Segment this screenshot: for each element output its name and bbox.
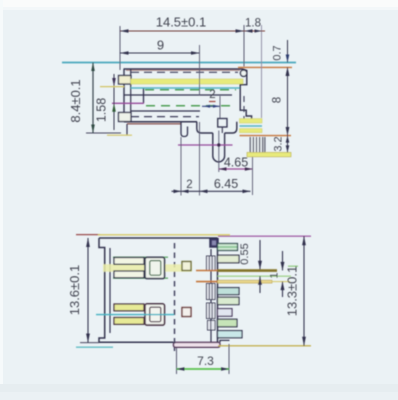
7.3 ext line left — [176, 348, 178, 374]
lower contact bottom prong — [114, 318, 144, 325]
upper contact bottom prong — [114, 271, 144, 278]
svg-text:1.8: 1.8 — [245, 18, 261, 30]
shell inner left wall — [109, 248, 111, 333]
8.4 bottom extension line — [86, 132, 121, 134]
ext line x=199.5 lower — [199, 122, 201, 196]
left wall inner — [130, 70, 132, 122]
lower contact neck — [144, 308, 152, 321]
dim 2 (bottom, outside arrows) — [172, 190, 200, 192]
pin 4 — [218, 297, 240, 304]
navy vertical contact bend — [143, 89, 145, 104]
small square latch — [218, 119, 227, 128]
dim 7.3 (green) — [177, 368, 230, 370]
left wall outer — [123, 69, 125, 122]
right leg yellow band lower — [240, 129, 263, 133]
U slot — [213, 133, 225, 162]
U centre axis — [218, 131, 220, 173]
dim 6.45 — [200, 190, 251, 192]
upper contact block — [145, 257, 165, 278]
ribbed block C — [207, 303, 216, 319]
green dashed row 2 — [146, 105, 236, 107]
pin 2 — [218, 255, 240, 263]
ext line right x=252.5 — [252, 157, 254, 195]
circle feature (top right) — [240, 70, 246, 76]
dim 2 arrows — [202, 105, 220, 107]
orange feed lower — [196, 281, 218, 283]
green dashed row 1 — [145, 89, 236, 91]
mounting foot (left leg) — [181, 122, 188, 137]
svg-text:1: 1 — [269, 272, 281, 278]
through-hole legs (ribbed) — [250, 137, 264, 152]
dim 8.4±0.1 vertical — [92, 63, 94, 134]
pin 5 — [218, 309, 233, 317]
yellow pcb-hole ext line (left) — [107, 134, 132, 136]
yellow ext of pin — [272, 281, 290, 283]
hidden dashed vertical (right) — [243, 96, 245, 122]
svg-text:7.3: 7.3 — [197, 354, 214, 368]
right side outline upper — [240, 69, 251, 122]
yellow top extension line — [76, 234, 100, 236]
pin 1 — [218, 244, 238, 251]
dim 3.2 vertical — [287, 136, 289, 153]
svg-text:0.55: 0.55 — [239, 243, 251, 264]
left top tab — [119, 76, 132, 85]
latch stem — [221, 127, 223, 133]
yellow bottom extension line — [218, 345, 311, 347]
cyan line through lower contact — [96, 314, 174, 316]
body top edge — [99, 237, 218, 239]
bottom wall top edge — [131, 110, 200, 112]
hidden dashed line (top inner) — [131, 71, 238, 73]
pcb surface line (cyan) — [62, 62, 296, 64]
svg-text:9: 9 — [157, 38, 164, 53]
svg-text:4.65: 4.65 — [224, 156, 248, 170]
ext line x=199.5 upper — [199, 45, 201, 95]
dim 1.58 vertical — [113, 74, 115, 130]
right wall outer line — [217, 238, 219, 342]
centre dot — [217, 143, 220, 146]
svg-text:3.2: 3.2 — [273, 136, 285, 151]
ext line left (14.5 / 9) — [119, 26, 121, 70]
green tick right — [288, 265, 298, 267]
upper square hole — [182, 262, 191, 271]
upper block inner edge — [150, 261, 161, 276]
red tick under 2 — [209, 101, 216, 103]
pin 6 — [218, 319, 238, 327]
lower square hole — [182, 308, 191, 317]
lower contact block — [145, 304, 165, 325]
center protrusion left shoulder — [197, 122, 213, 133]
right leg cyan line — [240, 125, 263, 127]
dim 13.3±0.1 — [303, 236, 305, 346]
ext line x=181 lower — [180, 137, 182, 196]
dim 13.6±0.1 — [87, 238, 89, 343]
svg-text:14.5±0.1: 14.5±0.1 — [156, 15, 207, 30]
pin 3 — [218, 288, 240, 295]
ribbed block B — [207, 284, 216, 300]
ext line x=261.5 (1.8 right) — [261, 25, 263, 118]
svg-text:8: 8 — [272, 97, 284, 103]
orange feed upper — [196, 270, 218, 272]
magenta top extension line — [218, 235, 311, 237]
dim 1.8 outside arrows — [244, 30, 265, 32]
yellow ext line (1.58 top ref) — [100, 86, 124, 88]
dim 1 — [282, 251, 284, 270]
ribbed block A — [207, 256, 216, 330]
pcb bottom orange line — [240, 135, 292, 137]
dim 0.7 vertical — [287, 40, 289, 63]
lower contact top prong — [114, 304, 144, 311]
left bottom tab — [119, 113, 132, 122]
long pin upper (olive) — [218, 269, 278, 272]
protrusion right shoulder — [225, 122, 237, 133]
dim 9 line — [120, 52, 200, 54]
svg-text:6.45: 6.45 — [214, 177, 238, 191]
solder yellow band — [247, 152, 291, 156]
pcb top extension line (orange) — [238, 66, 292, 68]
upper contact green bottom line — [113, 277, 168, 279]
dim 4.65 — [219, 168, 253, 170]
upper contact yellow band — [103, 264, 192, 271]
left foot vertical — [126, 124, 128, 135]
svg-text:2: 2 — [209, 89, 215, 101]
ribbed block D — [208, 321, 216, 331]
dim 0.55 — [259, 240, 261, 269]
green separator line — [218, 275, 292, 277]
bottom edge right part (thick purple) — [174, 342, 221, 347]
yellow tongue band — [131, 79, 243, 84]
ext line x=244 (1.8 left) — [243, 25, 245, 67]
svg-text:13.6±0.1: 13.6±0.1 — [67, 265, 82, 316]
dim 14.5±0.1 line — [120, 30, 244, 32]
long pin lower (yellow) — [218, 280, 273, 283]
magenta contact line — [112, 102, 144, 104]
right leg yellow band upper — [240, 119, 263, 123]
13.6 bottom extension tick — [80, 342, 99, 344]
lower block inner edge — [150, 307, 161, 322]
bottom edge maroon shadow — [127, 123, 181, 125]
body bottom edge — [124, 121, 197, 123]
upper contact green top line — [113, 256, 168, 258]
upper contact neck — [144, 261, 152, 274]
upper contact top prong — [114, 258, 144, 265]
svg-text:8.4±0.1: 8.4±0.1 — [68, 79, 83, 122]
svg-text:13.3±0.1: 13.3±0.1 — [285, 266, 300, 317]
7.3 ext line right — [228, 344, 230, 374]
pin 7 — [218, 331, 243, 338]
svg-text:0.7: 0.7 — [272, 45, 284, 60]
right wall inner line — [210, 249, 212, 342]
svg-text:1.58: 1.58 — [95, 98, 109, 122]
navy contact line — [124, 94, 232, 96]
hidden dashed line (bottom wall) — [131, 116, 199, 118]
svg-text:2: 2 — [186, 179, 192, 191]
cyan contact line — [131, 87, 240, 89]
dim 8 vertical — [287, 67, 289, 135]
body top edge — [124, 68, 244, 70]
magenta crossing line — [178, 144, 233, 146]
hidden dashed line (vertical) — [174, 243, 176, 351]
top cap (dark) — [210, 238, 218, 247]
ext line for 2 (right) — [219, 96, 221, 118]
shell left outline — [99, 238, 174, 342]
